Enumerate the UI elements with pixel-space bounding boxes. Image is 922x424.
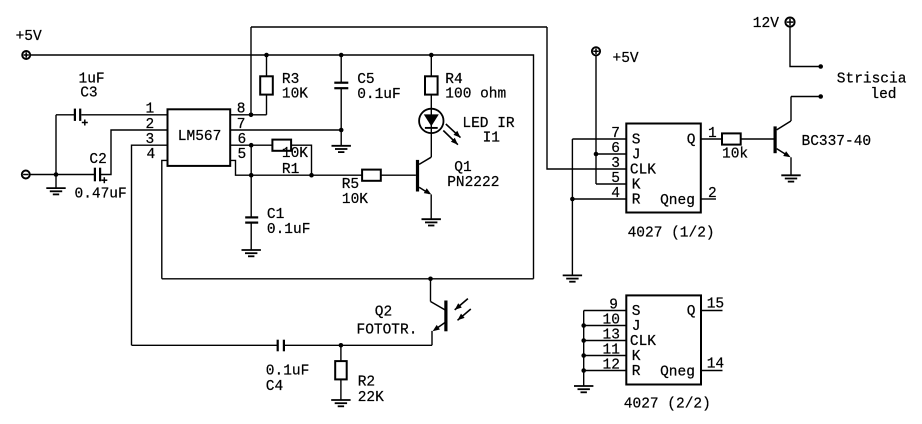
svg-text:Q2: Q2 [375, 304, 392, 320]
svg-text:Striscia: Striscia [837, 72, 907, 88]
svg-text:0.47uF: 0.47uF [75, 187, 127, 203]
svg-text:10: 10 [603, 312, 620, 328]
svg-text:C2: C2 [89, 152, 106, 168]
svg-text:led: led [870, 87, 896, 103]
svg-text:Q: Q [687, 304, 696, 320]
svg-text:4: 4 [611, 186, 620, 202]
svg-text:CLK: CLK [630, 163, 656, 179]
svg-text:3: 3 [146, 132, 155, 148]
svg-text:R4: R4 [445, 72, 462, 88]
svg-text:1: 1 [146, 102, 155, 118]
svg-text:6: 6 [238, 132, 247, 148]
svg-text:0.1uF: 0.1uF [266, 364, 310, 380]
svg-text:13: 13 [603, 327, 620, 343]
svg-text:K: K [632, 178, 641, 194]
svg-text:CLK: CLK [630, 334, 656, 350]
svg-text:10K: 10K [342, 192, 368, 208]
svg-text:7: 7 [237, 117, 246, 133]
svg-text:1: 1 [708, 126, 717, 142]
svg-text:LED IR: LED IR [462, 116, 515, 132]
svg-text:S: S [632, 133, 641, 149]
svg-text:R3: R3 [282, 72, 299, 88]
svg-text:11: 11 [603, 342, 620, 358]
svg-text:10K: 10K [282, 146, 308, 162]
svg-text:4027 (2/2): 4027 (2/2) [624, 397, 711, 413]
svg-text:K: K [632, 349, 641, 365]
svg-text:4027 (1/2): 4027 (1/2) [628, 225, 715, 241]
svg-text:C5: C5 [357, 72, 374, 88]
svg-text:+5V: +5V [16, 29, 42, 45]
svg-text:BC337-40: BC337-40 [802, 134, 872, 150]
svg-text:5: 5 [238, 147, 247, 163]
svg-text:12V: 12V [753, 16, 779, 32]
svg-text:C3: C3 [80, 86, 97, 102]
svg-text:2: 2 [146, 117, 155, 133]
svg-text:10K: 10K [282, 87, 308, 103]
svg-text:Qneg: Qneg [660, 193, 695, 209]
svg-text:22K: 22K [358, 390, 384, 406]
svg-text:S: S [632, 304, 641, 320]
svg-text:4: 4 [147, 147, 156, 163]
svg-text:9: 9 [609, 297, 618, 313]
svg-text:15: 15 [707, 296, 724, 312]
svg-text:Qneg: Qneg [660, 364, 695, 380]
svg-text:+5V: +5V [613, 51, 639, 67]
svg-text:J: J [632, 148, 641, 164]
svg-text:R: R [632, 193, 641, 209]
svg-text:3: 3 [611, 156, 620, 172]
svg-text:0.1uF: 0.1uF [357, 87, 401, 103]
svg-text:2: 2 [708, 186, 717, 202]
svg-text:R5: R5 [342, 177, 359, 193]
svg-text:0.1uF: 0.1uF [267, 222, 311, 238]
svg-text:10k: 10k [722, 147, 748, 163]
svg-text:5: 5 [611, 171, 620, 187]
svg-text:6: 6 [611, 141, 620, 157]
svg-text:12: 12 [603, 357, 620, 373]
svg-text:R1: R1 [282, 162, 299, 178]
svg-text:8: 8 [237, 102, 246, 118]
svg-text:R2: R2 [358, 374, 375, 390]
svg-text:LM567: LM567 [178, 129, 222, 145]
svg-text:C1: C1 [267, 207, 284, 223]
svg-text:Q1: Q1 [454, 160, 471, 176]
svg-text:C4: C4 [266, 379, 283, 395]
svg-text:PN2222: PN2222 [447, 175, 499, 191]
svg-text:14: 14 [707, 356, 724, 372]
svg-text:FOTOTR.: FOTOTR. [357, 323, 418, 339]
svg-text:100 ohm: 100 ohm [445, 87, 506, 103]
svg-text:Q: Q [687, 133, 696, 149]
svg-text:R: R [632, 364, 641, 380]
svg-text:I1: I1 [483, 131, 500, 147]
svg-text:7: 7 [611, 126, 620, 142]
svg-text:J: J [632, 319, 641, 335]
